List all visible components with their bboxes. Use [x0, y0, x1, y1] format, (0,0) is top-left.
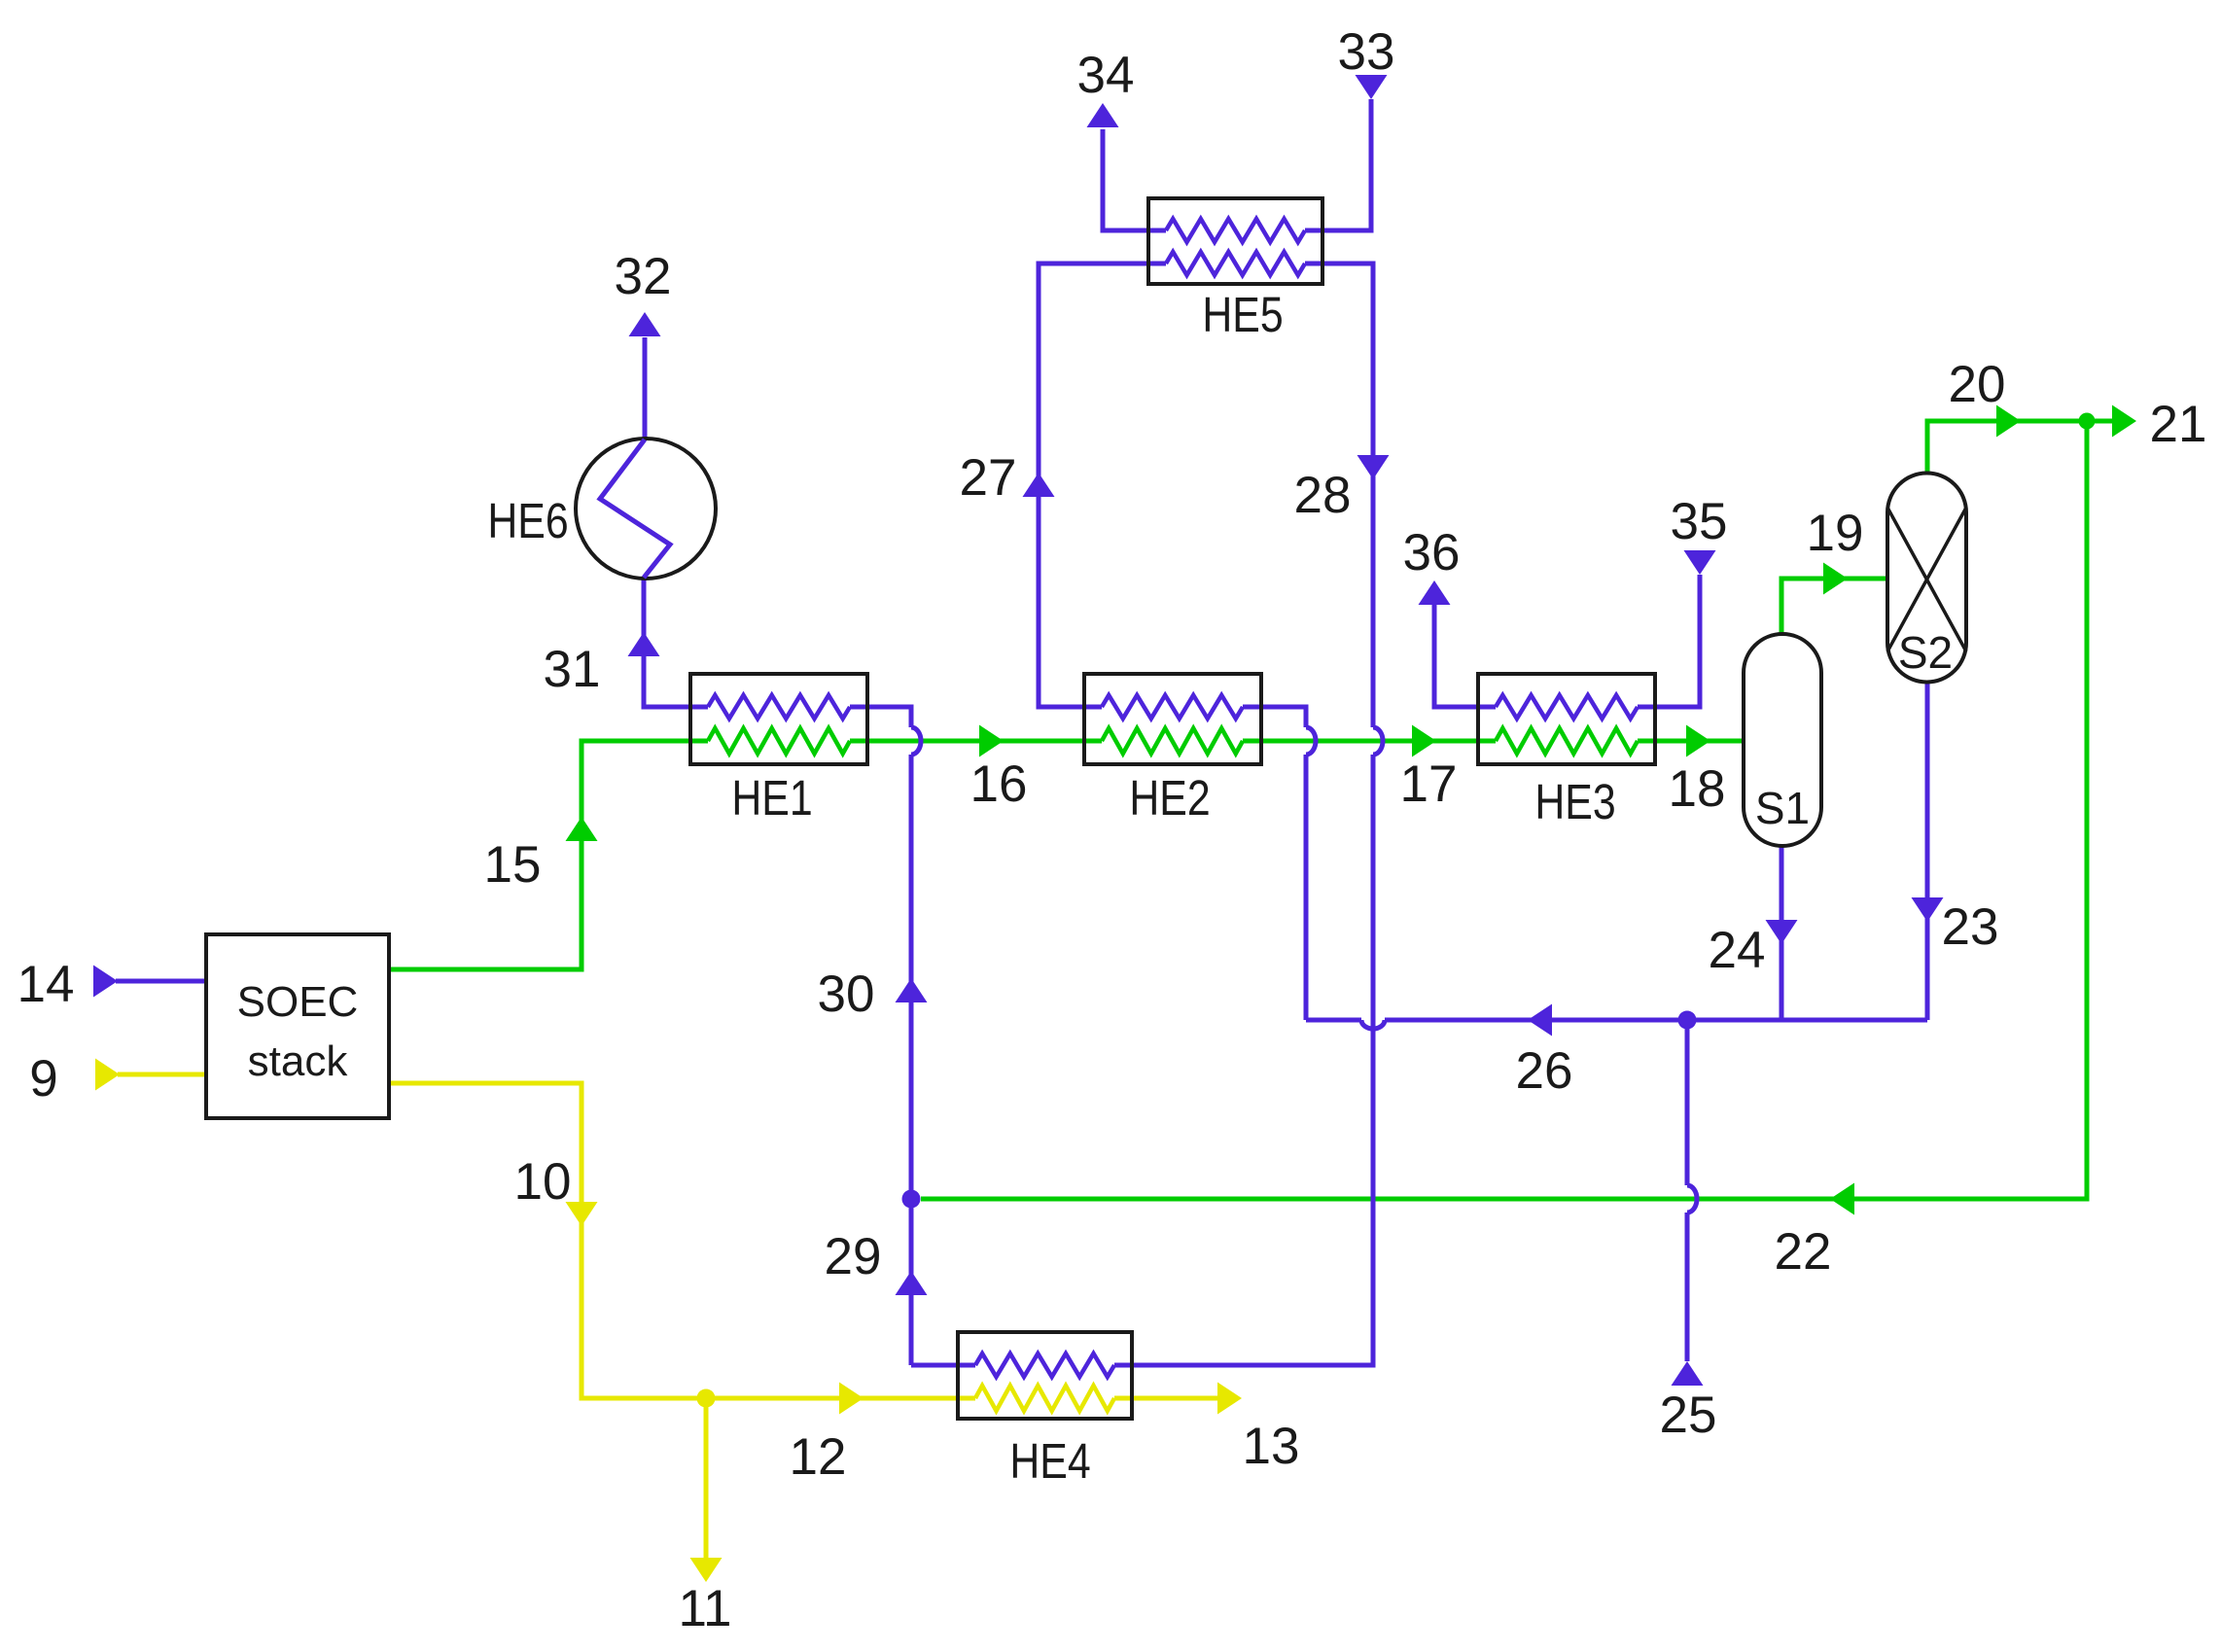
wire: 35 inlet down to HE3: [1638, 575, 1700, 707]
svg-text:S1: S1: [1755, 783, 1810, 833]
wire: 12 to HE4: [706, 1396, 975, 1401]
svg-text:9: 9: [29, 1050, 57, 1107]
wire: 25 inlet vertical with hop over green 22: [1685, 1020, 1690, 1185]
HE2 blue coil: [1102, 695, 1243, 719]
svg-text:17: 17: [1400, 756, 1458, 813]
wire: 28 HE5 down to HE4 with hops: [1305, 264, 1373, 727]
arrow stream 32: [629, 312, 661, 336]
heat exchanger HE1 box: [690, 674, 867, 764]
svg-text:HE4: HE4: [1009, 1432, 1090, 1488]
wire: HE4 to arrow 13: [1114, 1396, 1218, 1401]
svg-text:14: 14: [18, 956, 75, 1013]
wire: 34 HE5 out up: [1103, 129, 1166, 230]
svg-text:19: 19: [1807, 505, 1864, 562]
svg-text:31: 31: [544, 641, 601, 698]
HE3 green coil: [1496, 728, 1638, 754]
svg-text:29: 29: [825, 1228, 882, 1285]
HE1 green coil: [708, 728, 850, 754]
svg-text:24: 24: [1709, 922, 1766, 979]
svg-text:18: 18: [1669, 760, 1726, 818]
svg-text:25: 25: [1660, 1387, 1717, 1444]
svg-text:HE5: HE5: [1202, 286, 1283, 341]
svg-text:HE6: HE6: [487, 492, 568, 547]
wire: 27 HE2 up to HE5: [1039, 264, 1166, 707]
wire: 23 S2 bottom to line 26: [1925, 683, 1930, 1020]
wire: 32 HE6 to out: [643, 337, 648, 438]
arrow stream 15: [566, 817, 598, 841]
junction dot yellow 12: [697, 1389, 716, 1408]
wire: 19 S1 top to S2: [1781, 579, 1887, 634]
svg-text:30: 30: [818, 966, 875, 1023]
arrow stream 13: [1217, 1383, 1242, 1415]
svg-text:10: 10: [514, 1153, 572, 1211]
junction dot green 20/21/22: [2079, 413, 2096, 430]
HE1 blue coil: [708, 695, 850, 719]
svg-text:33: 33: [1338, 23, 1395, 81]
junction dot blue 25/26: [1678, 1011, 1697, 1030]
separator S2 vessel with X: [1887, 474, 1966, 683]
svg-text:11: 11: [678, 1580, 731, 1637]
arrow stream 18: [1686, 725, 1710, 757]
heat exchanger HE3 box: [1478, 674, 1655, 764]
svg-text:15: 15: [484, 836, 542, 894]
arrow stream 23: [1912, 897, 1944, 922]
arrow stream 28: [1357, 455, 1390, 479]
wire: 22 recycle down and left: [921, 421, 2087, 1199]
svg-text:28: 28: [1294, 467, 1352, 524]
svg-text:HE3: HE3: [1534, 773, 1615, 828]
wire: 36 HE3 out up: [1434, 605, 1496, 707]
HE2 green coil: [1102, 728, 1243, 754]
arrow stream 35: [1684, 550, 1716, 575]
wire: HE2 right down to line 26 with hop: [1243, 707, 1306, 727]
arrow stream 29: [896, 1271, 928, 1295]
wire: 18 HE3 to S1: [1638, 739, 1744, 744]
svg-text:stack: stack: [248, 1037, 349, 1085]
svg-text:36: 36: [1403, 524, 1461, 581]
svg-text:20: 20: [1949, 356, 2006, 413]
heat exchanger HE4 box: [958, 1332, 1132, 1419]
arrow stream 17: [1412, 725, 1436, 757]
arrow stream 33: [1356, 75, 1388, 99]
stream 14 inlet arrow: [93, 966, 118, 998]
HE4 yellow coil: [975, 1386, 1114, 1411]
HE4 blue coil: [975, 1353, 1114, 1377]
wire: 16 HE1 to HE2: [867, 739, 1102, 744]
HE5 bottom blue coil: [1166, 252, 1305, 275]
junction dot blue (22 joins 29/30): [902, 1190, 921, 1209]
wire: 30/29 vertical HE1 right down to HE4, with hop over green: [867, 707, 911, 727]
HE3 blue coil: [1496, 695, 1638, 719]
arrow stream 30: [896, 978, 928, 1002]
wire: 17 HE2 to HE3: [1243, 739, 1496, 744]
arrow stream 19: [1823, 563, 1848, 595]
arrow stream 36: [1419, 580, 1451, 605]
arrow stream 26: [1528, 1004, 1552, 1037]
SOEC stack box: [206, 934, 389, 1118]
svg-text:23: 23: [1942, 898, 1999, 956]
arrow stream 16: [979, 725, 1004, 757]
heat exchanger HE5 box: [1148, 198, 1322, 284]
arrow stream 24: [1766, 920, 1798, 944]
arrow stream 34: [1087, 103, 1119, 127]
wire: line 26 horizontal with hop under 28: [1306, 1018, 1361, 1023]
arrow stream 31: [628, 632, 660, 656]
arrow stream 20: [1996, 405, 2021, 438]
arrow stream 10: [566, 1202, 598, 1226]
stream 9 inlet arrow: [95, 1059, 120, 1091]
wire: SOEC yellow outlet 10: [389, 1083, 706, 1398]
svg-text:13: 13: [1243, 1418, 1300, 1475]
wire: SOEC green outlet 15: [389, 741, 690, 969]
svg-text:22: 22: [1775, 1223, 1832, 1281]
svg-text:12: 12: [790, 1428, 847, 1486]
arrow stream 22: [1830, 1183, 1854, 1215]
wire: 31 HE1 to HE6: [644, 580, 690, 707]
svg-text:S2: S2: [1898, 627, 1953, 678]
arrow stream 27: [1023, 473, 1055, 497]
arrow stream 25: [1672, 1361, 1704, 1386]
arrow stream 11: [690, 1558, 723, 1582]
arrow stream 12: [839, 1383, 864, 1415]
wire: 33 inlet down to HE5: [1305, 99, 1371, 230]
HE5 top blue coil: [1166, 219, 1305, 242]
wire: branch 11 down: [704, 1398, 709, 1560]
svg-text:HE2: HE2: [1129, 769, 1210, 825]
svg-text:16: 16: [970, 756, 1028, 813]
wire: 20 S2 top to junction: [1927, 421, 2087, 473]
svg-text:27: 27: [960, 449, 1017, 507]
wire: 24 S1 bottom to line 26: [1780, 846, 1784, 1020]
svg-text:32: 32: [615, 248, 672, 305]
heat exchanger HE2 box: [1084, 674, 1261, 764]
wire: 21 out: [2087, 419, 2113, 424]
svg-text:21: 21: [2150, 396, 2207, 453]
svg-text:34: 34: [1077, 47, 1135, 104]
svg-text:35: 35: [1671, 493, 1728, 550]
HE6 circle with zigzag: [576, 439, 716, 579]
svg-text:SOEC: SOEC: [237, 978, 359, 1026]
svg-text:HE1: HE1: [731, 769, 812, 825]
separator S1 vessel: [1744, 634, 1821, 846]
svg-text:26: 26: [1516, 1042, 1573, 1100]
